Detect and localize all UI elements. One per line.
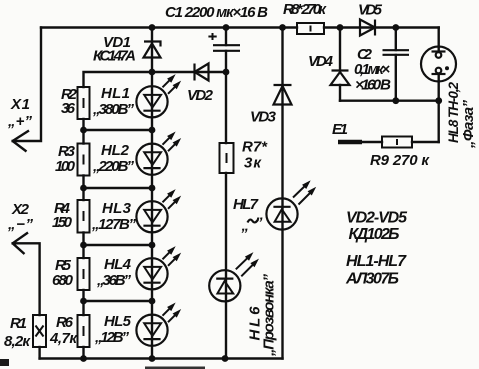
LED HL6 (209, 253, 258, 301)
svg-text:36: 36 (61, 100, 76, 117)
LED HL4 (136, 247, 180, 289)
resistor R2 (78, 87, 90, 119)
svg-text:HL5: HL5 (104, 313, 132, 330)
resistor R4 (78, 200, 90, 233)
svg-text:„127В”: „127В” (91, 216, 137, 233)
wire LED column (151, 28, 153, 359)
svg-text:4,7к: 4,7к (49, 330, 78, 347)
svg-text:Х1: Х1 (10, 96, 30, 113)
svg-text:„Фаза”: „Фаза” (460, 100, 477, 150)
svg-text:VD2: VD2 (187, 87, 214, 104)
svg-text:VD4: VD4 (308, 53, 334, 70)
capacitor C2 (383, 50, 410, 55)
wire R9 right lead (412, 141, 439, 143)
svg-text:R1: R1 (10, 315, 27, 332)
neon lamp HL8 (421, 47, 456, 82)
connector X1 arrow (13, 131, 29, 152)
svg-text:”: ” (255, 215, 263, 232)
svg-text:HL1: HL1 (101, 85, 130, 102)
svg-text:С1 2200 мк×16 В: С1 2200 мк×16 В (165, 4, 268, 21)
svg-text:Е1: Е1 (332, 121, 348, 138)
svg-text:R7*: R7* (242, 139, 268, 156)
scan artifact bottom-left (0, 359, 9, 366)
svg-text:„12В”: „12В” (94, 329, 130, 346)
scan artifact bottom edge (145, 367, 205, 369)
svg-text:HL4: HL4 (104, 256, 132, 273)
svg-text:8,2к: 8,2к (4, 333, 31, 350)
svg-text:КД102Б: КД102Б (349, 226, 400, 243)
svg-text:150: 150 (52, 214, 73, 231)
resistor R9 (382, 137, 412, 148)
LED HL7 (266, 182, 315, 230)
wire X2 lead (13, 243, 40, 315)
svg-text:„: „ (241, 218, 250, 235)
resistor R8 (297, 23, 324, 34)
svg-text:„220В”: „220В” (92, 158, 135, 175)
diode VD2 (195, 64, 209, 81)
wire bottom rail (40, 357, 283, 359)
svg-text:КС147А: КС147А (93, 48, 136, 65)
svg-text:HL1-HL7: HL1-HL7 (346, 253, 407, 270)
wire left bus X1 (13, 28, 41, 142)
svg-text:VD5: VD5 (358, 2, 383, 19)
resistor R1 (33, 315, 46, 347)
wire E1 lead (362, 141, 382, 143)
wire row2 (84, 129, 153, 131)
resistor R7 (220, 143, 234, 173)
svg-text:100: 100 (55, 158, 76, 175)
wire HL7 column (281, 28, 283, 359)
electrode E1 (338, 140, 362, 145)
wire row4 (84, 244, 153, 246)
wire row3 (84, 187, 153, 189)
wire VD4 column (339, 28, 341, 101)
diode VD5 (360, 20, 375, 36)
wire socket bottom lead (438, 74, 440, 142)
svg-text:680: 680 (52, 272, 74, 289)
wire resistor column segments (82, 119, 84, 359)
wire row5 (84, 300, 153, 302)
svg-text:„36В”: „36В” (96, 272, 132, 289)
resistor R3 (78, 144, 90, 176)
svg-text:3к: 3к (244, 155, 262, 172)
svg-text:R6: R6 (56, 314, 74, 331)
svg-text:HL8 ТН-0,2: HL8 ТН-0,2 (446, 82, 461, 143)
zener diode VD1 (144, 42, 161, 58)
svg-text:0,1мк×: 0,1мк× (354, 61, 390, 78)
LED HL3 (136, 190, 180, 232)
resistor R6 (78, 315, 90, 347)
wire middle column C1/R7/HL6 (225, 28, 227, 359)
svg-text:„380В”: „380В” (92, 101, 135, 118)
svg-text:АЛ307Б: АЛ307Б (345, 271, 399, 288)
LED HL5 (136, 304, 180, 346)
svg-text:HL2: HL2 (101, 142, 130, 159)
svg-text:VD2-VD5: VD2-VD5 (346, 210, 408, 227)
wire top rail (41, 26, 439, 28)
svg-text:R8* 270к: R8* 270к (283, 1, 327, 18)
svg-text:„+”: „+” (7, 113, 33, 130)
svg-text:„−”: „−” (7, 216, 34, 233)
svg-text:R9 270 к: R9 270 к (370, 152, 430, 169)
wire socket top lead (438, 28, 440, 52)
capacitor C1 (208, 33, 240, 51)
wire R1 bottom (38, 347, 40, 359)
diode VD4 (331, 71, 350, 86)
svg-text:HL3: HL3 (102, 200, 132, 217)
LED HL1 (136, 75, 180, 117)
diode VD3 (274, 85, 292, 105)
svg-text:VD3: VD3 (250, 109, 277, 126)
resistor R5 (78, 258, 90, 290)
wire C2 leads (395, 28, 397, 101)
wire row1 (84, 72, 227, 87)
connector X2 arrow (13, 233, 28, 255)
svg-text:HL7: HL7 (233, 196, 259, 213)
svg-text:„Прозвонка”: „Прозвонка” (261, 274, 278, 358)
svg-text:×160 В: ×160 В (355, 77, 391, 94)
LED HL2 (136, 133, 180, 175)
wire subcircuit bottom (340, 99, 439, 101)
